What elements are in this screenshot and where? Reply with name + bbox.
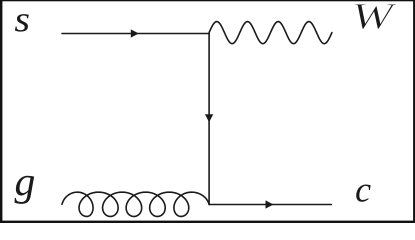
label W (outgoing W boson) (355, 4, 397, 29)
W boson wavy line (209, 22, 332, 44)
label s (incoming strange quark) (15, 14, 29, 31)
arrowhead on s-quark line (131, 29, 139, 37)
arrowhead on c-quark line (266, 200, 274, 208)
arrowhead on internal propagator (pointing down) (205, 114, 213, 122)
wire: c-quark fermion line (bottom horizontal) (209, 204, 331, 206)
wire: internal quark propagator (vertical) (208, 34, 210, 205)
label c (outgoing charm quark) (356, 185, 370, 202)
wire: s-quark fermion line (top horizontal) (62, 33, 209, 35)
label g (incoming gluon) (15, 176, 35, 204)
gluon curly line (62, 192, 209, 216)
